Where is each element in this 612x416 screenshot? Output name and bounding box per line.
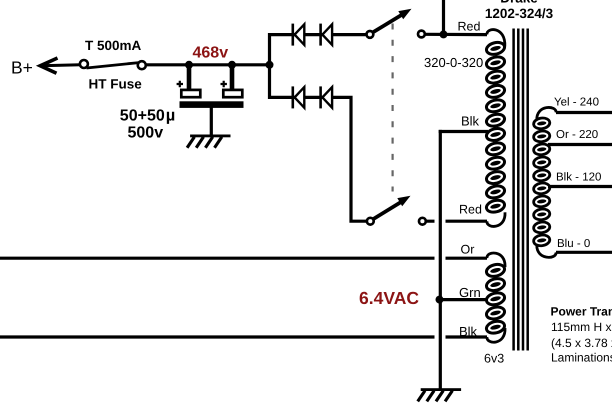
svg-text:Or: Or xyxy=(461,243,475,257)
svg-text:500v: 500v xyxy=(128,125,164,142)
svg-text:Or - 220: Or - 220 xyxy=(556,129,598,141)
svg-text:320-0-320: 320-0-320 xyxy=(424,55,483,70)
svg-text:Blk: Blk xyxy=(459,324,478,339)
svg-text:Grn: Grn xyxy=(459,285,481,300)
svg-text:1202-324/3: 1202-324/3 xyxy=(485,6,554,21)
svg-text:HT Fuse: HT Fuse xyxy=(89,77,143,92)
svg-text:T 500mA: T 500mA xyxy=(85,38,142,53)
svg-text:6v3: 6v3 xyxy=(484,352,504,366)
svg-text:Yel - 240: Yel - 240 xyxy=(554,97,599,109)
svg-text:Drake: Drake xyxy=(500,0,538,6)
svg-text:Power Transformer: Power Transformer xyxy=(551,305,612,319)
svg-text:50+50µ: 50+50µ xyxy=(120,107,175,125)
svg-text:Red: Red xyxy=(458,20,481,34)
svg-text:115mm H x 95mm: 115mm H x 95mm xyxy=(551,320,612,334)
svg-text:Red: Red xyxy=(459,203,482,217)
svg-text:Blk - 120: Blk - 120 xyxy=(556,172,601,184)
svg-text:Blk: Blk xyxy=(461,114,480,129)
svg-text:Blu - 0: Blu - 0 xyxy=(557,238,590,250)
svg-text:(4.5 x 3.78 x 3.9"): (4.5 x 3.78 x 3.9") xyxy=(551,336,612,350)
svg-text:B+: B+ xyxy=(11,58,33,78)
svg-text:6.4VAC: 6.4VAC xyxy=(359,288,419,308)
svg-text:468v: 468v xyxy=(193,45,229,62)
svg-text:Laminations: EI: Laminations: EI xyxy=(551,351,612,365)
